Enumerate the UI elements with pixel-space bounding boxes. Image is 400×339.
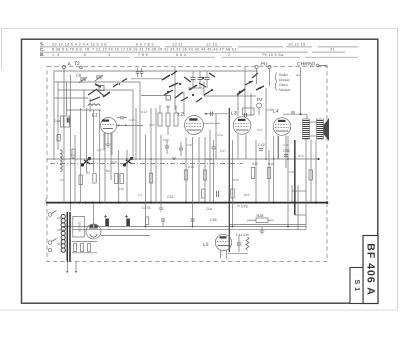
svg-text:8 38 9 6.79 8 8. 78. 7 12.: 8 38 9 6.79 8 8. 78. 7 12.13 14 15.17 18… [52,48,237,52]
svg-text:B.: B. [40,52,45,57]
pins tube V4 [278,136,286,169]
wire tuner top 1 [54,81,140,83]
switch PU contacts [237,73,264,95]
resistor R21 [202,189,205,198]
svg-text:PU: PU [261,62,268,68]
power transformer core [67,212,70,262]
wire cathode tie [228,253,248,255]
svg-text:C44 C46: C44 C46 [236,233,249,237]
svg-text:R17: R17 [257,128,263,132]
svg-text:L4: L4 [273,109,279,115]
svg-text:110 220: 110 220 [78,221,82,232]
HT dark bus [46,202,327,204]
bus start tick [45,199,47,203]
resistor R6 [93,174,96,184]
voltage selector box [73,217,85,238]
ground symbol 1 [159,203,164,211]
dropper resistor row line lower [72,252,97,254]
svg-text:C47B: C47B [142,206,151,210]
svg-text:C30: C30 [206,157,212,161]
title block box S1 [350,268,363,304]
svg-text:8 0 2: 8 0 2 [176,53,186,57]
wire caps bus [188,82,204,96]
svg-text:C2a: C2a [217,133,223,137]
wafer switch S2a [82,158,91,167]
IF transformer T1 [54,116,70,127]
svg-text:R14: R14 [188,165,194,169]
mains plug lower [48,239,56,252]
svg-text:C36: C36 [210,218,217,222]
capacitor Cc [212,140,216,203]
table row S underline [40,46,358,48]
resistor R8 [120,174,123,184]
junction dots HT bus [69,201,328,204]
resistor R11 [149,173,152,183]
svg-text:25 17.12 5 4 2 6 4 12 b 3 8: 25 17.12 5 4 2 6 4 12 b 3 8 [52,42,107,46]
svg-text:C41: C41 [289,170,295,174]
wire verticals left section [58,82,140,203]
output tube V6 [215,234,231,250]
capacitor Ca [165,140,169,154]
switch wafer 2 contact dots [167,77,213,96]
IF can T3 [243,108,273,117]
svg-text:BF 406 A: BF 406 A [365,243,377,296]
resistor R22 [231,189,234,198]
legend text block [276,73,301,93]
scattered value labels [60,105,304,197]
svg-text:2: 2 [228,53,230,57]
svg-text:C17: C17 [97,148,103,152]
svg-text:L3: L3 [71,153,75,157]
svg-text:a.c: a.c [296,73,301,77]
svg-text:L1: L1 [92,113,98,119]
svg-text:Disque: Disque [279,78,290,82]
svg-text:C5a: C5a [206,207,212,211]
svg-text:R10: R10 [111,160,117,164]
svg-text:4.7: 4.7 [138,193,143,197]
svg-text:R9: R9 [106,169,110,173]
resistor R13 [203,170,206,180]
table row B underline [40,56,358,58]
coil L1 bumps [88,104,100,106]
tube V3 [233,117,251,135]
svg-text:5: 5 [84,53,86,57]
wire IF link [66,109,101,111]
wire pu link [204,112,228,117]
svg-text:L2: L2 [178,112,184,118]
svg-text:R20: R20 [298,154,304,158]
wire drop d [135,108,137,160]
wire drop b [83,90,85,108]
svg-text:79 10 9 6a: 79 10 9 6a [262,53,284,57]
resistor R16 [267,168,270,179]
terminal PU right [268,65,271,68]
svg-text:C54: C54 [167,195,173,199]
output transformer lamination 2 [317,119,324,139]
heater wire lower [72,229,306,231]
shield box tuner [54,71,258,160]
svg-text:C12: C12 [141,110,147,114]
wire output to OT [230,224,306,226]
dashed chassis boundary [47,67,327,262]
wire drop a [66,82,68,115]
capacitor C16 [117,116,127,120]
trimmer arrows [113,79,127,88]
title block box BF406A [363,236,378,304]
resistor R27 zigzag [246,237,249,250]
misc small labels [86,110,274,191]
wire vertical from A [63,69,65,203]
svg-text:C6: C6 [60,178,64,182]
wire PU drops [257,69,270,86]
OT primary wires [283,67,307,119]
capacitor C39 [283,149,290,156]
svg-text:21.: 21. [330,48,336,52]
antenna coil zigzag [60,150,62,172]
resistor R1 [57,135,60,142]
wire grid bias [204,95,256,97]
wire R28 feed [247,219,256,221]
svg-text:L3: L3 [231,111,237,117]
wire band link 2 [141,95,168,97]
capacitor C44 [237,236,241,252]
ground under V2 [172,158,176,160]
terminal A [62,62,71,69]
speaker cone [324,118,330,141]
svg-text:R16: R16 [268,162,274,166]
svg-text:P2: P2 [257,97,263,102]
svg-text:13 11: 13 11 [172,42,183,46]
label C70 [237,205,248,209]
svg-text:L5: L5 [203,242,209,248]
junction dots heater wire [145,226,290,228]
mains plug upper [48,211,56,217]
pins tube V1 [104,133,112,155]
svg-text:7 9 6: 7 9 6 [138,53,148,57]
svg-text:Glace: Glace [279,83,288,87]
svg-text:Radio: Radio [279,73,288,77]
trimmer cap C9 [95,75,103,81]
wire verticals right section [229,67,316,252]
dropper resistor Rb [81,244,84,252]
svg-text:C4a: C4a [54,119,60,123]
capacitor C1 [136,68,139,77]
tone ladder left [291,185,293,203]
svg-text:R25: R25 [244,193,250,197]
svg-text:R15: R15 [252,162,258,166]
pins tube V3 [238,135,246,160]
svg-text:R2: R2 [86,171,90,175]
capacitor C54 [167,191,219,199]
svg-text:C22: C22 [149,123,155,127]
svg-text:C15: C15 [129,118,135,122]
terminal T2 [74,61,82,69]
svg-text:R28: R28 [257,214,264,218]
svg-text:C8: C8 [76,73,82,78]
svg-text:C43: C43 [267,108,273,112]
svg-text:R18: R18 [233,178,239,182]
capacitor trio C32 [198,71,203,88]
dropper resistor Ra [74,244,77,252]
wire drop c [89,98,91,112]
wire tuner top 2 [58,89,133,91]
svg-text:C39: C39 [283,149,290,153]
svg-text:C19: C19 [118,187,124,191]
resistor R19 [309,170,312,180]
switch PU contact dots [239,81,261,93]
speaker frame [310,121,317,123]
svg-text:C70: C70 [241,205,248,209]
ground under V1 [106,133,111,147]
wire V6 pins [221,250,227,259]
filter cap C48 [104,215,109,226]
CHR50 terminal [316,64,327,68]
capacitor trio C33 [205,71,210,88]
capacitor C42 [258,143,265,150]
switch gang dash-dot line [50,163,243,165]
resistor R24 [146,217,149,225]
dropper resistor row line upper [72,241,97,243]
terminal PU left [255,65,258,68]
rectifier tube V5 [86,224,101,239]
svg-text:T2: T2 [74,61,80,67]
tube V1 [101,118,117,134]
switch wafer 2 contacts [162,71,215,102]
svg-text:C42: C42 [258,143,265,147]
power transformer primary winding [61,214,65,252]
resistor R12 [184,170,187,180]
wire vertical T2 drop [70,75,72,211]
wire tuner top 3 [54,97,88,99]
wire rectifier cathode [101,235,150,237]
resistor R15 [251,168,254,179]
wire R28 out [268,219,274,221]
tube V2 [185,116,204,135]
capacitor C35 [161,219,165,227]
svg-text:1. 2: 1. 2 [52,53,60,57]
wire band link 1 [131,78,162,80]
wire rectifier anode [93,203,95,224]
filter cap C49 [125,215,130,226]
svg-text:R4: R4 [166,105,170,109]
capacitor trio C31 [191,71,196,88]
svg-text:Marque: Marque [279,88,291,92]
wire V1 anode out [117,125,144,127]
svg-text:C40: C40 [283,143,289,147]
wire V2 anode out [204,122,221,124]
svg-text:3: 3 [108,53,110,57]
resistor R5 [79,175,82,185]
resistor Rant [72,149,75,158]
power transformer tap wires [57,218,64,244]
resistor R28 [256,214,268,223]
heater wire upper [63,226,306,228]
wire AM bus [47,158,320,160]
schematic content [46,61,329,273]
capacitor C2 [140,68,143,77]
svg-text:6 5 7 8 3: 6 5 7 8 3 [136,42,154,46]
tone ladder bottom [295,214,306,216]
resistor R7 [115,174,118,184]
ground symbol 2 [260,227,265,235]
wafer switch S2b [124,158,133,167]
table row C underline [40,51,345,53]
svg-text:S 1: S 1 [353,279,360,291]
dropper resistor Rc [88,244,91,252]
svg-text:12 13.: 12 13. [206,42,219,46]
svg-text:C27: C27 [220,149,226,153]
svg-text:10.12 19: 10.12 19 [288,42,306,46]
switch wafer 1 contacts [88,84,110,101]
tone ladder top [292,190,306,192]
tube V4 [273,118,291,136]
resistor trio block [158,113,178,126]
svg-text:C21: C21 [163,138,169,142]
svg-text:CHR/50: CHR/50 [297,62,315,68]
chassis drop wires [66,262,77,273]
outer border frame [22,39,378,303]
top component table [40,42,358,58]
trimmer cap C8 [76,73,87,84]
wire verticals centre section [146,67,217,227]
svg-text:C28: C28 [186,143,192,147]
capacitor C37 [191,219,195,227]
switch wafer 1 frame [99,86,104,91]
output transformer lamination 1 [303,119,310,139]
rectifier anode blobs [90,225,98,227]
capacitor Cb [179,142,183,156]
